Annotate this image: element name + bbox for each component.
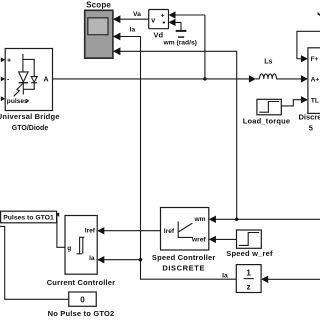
- svg-text:Speed Controller: Speed Controller: [152, 253, 216, 262]
- svg-text:Ia: Ia: [222, 273, 228, 280]
- svg-text:Current Controller: Current Controller: [47, 278, 116, 287]
- svg-text:Ia: Ia: [130, 27, 136, 34]
- svg-text:v: v: [151, 17, 155, 24]
- svg-text:A: A: [44, 77, 49, 84]
- svg-text:DISCRETE: DISCRETE: [162, 263, 205, 272]
- svg-text:0: 0: [80, 296, 85, 305]
- svg-text:z: z: [247, 282, 251, 291]
- svg-text:wm: wm: [194, 216, 206, 223]
- svg-text:F+: F+: [311, 56, 319, 63]
- svg-text:Load_torque: Load_torque: [243, 116, 291, 125]
- svg-text:Scope: Scope: [86, 0, 111, 9]
- svg-text:A+: A+: [311, 77, 320, 84]
- svg-text:Discre: Discre: [299, 113, 320, 122]
- svg-text:Va: Va: [133, 11, 141, 18]
- svg-text:No Pulse to GTO2: No Pulse to GTO2: [48, 309, 115, 318]
- svg-text:1: 1: [246, 269, 251, 278]
- svg-text:g: g: [67, 245, 71, 252]
- svg-text:Vd: Vd: [154, 31, 164, 40]
- svg-text:wm (rad/s): wm (rad/s): [162, 39, 196, 46]
- svg-text:TL: TL: [311, 98, 319, 105]
- svg-text:pulses: pulses: [7, 98, 28, 105]
- svg-text:Speed w_ref: Speed w_ref: [226, 249, 273, 258]
- svg-text:wref: wref: [191, 236, 206, 243]
- svg-text:Pulses to GTO1: Pulses to GTO1: [3, 215, 54, 222]
- svg-text:GTO/Diode: GTO/Diode: [12, 125, 49, 132]
- svg-text:Ls: Ls: [264, 59, 272, 66]
- svg-text:Universal Bridge: Universal Bridge: [0, 112, 60, 121]
- svg-text:Iref: Iref: [85, 227, 96, 234]
- svg-text:5: 5: [309, 124, 313, 133]
- svg-text:+: +: [7, 58, 11, 65]
- svg-text:+: +: [161, 13, 165, 20]
- svg-text:Iref: Iref: [164, 228, 175, 235]
- svg-text:Ia: Ia: [89, 255, 95, 262]
